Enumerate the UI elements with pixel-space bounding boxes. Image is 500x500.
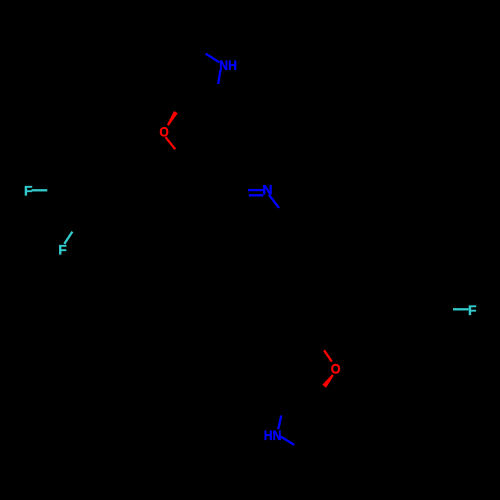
svg-text:O: O — [331, 361, 341, 377]
wire: blue half-bond C5-N1 of bottom pyrrolidine — [278, 416, 281, 430]
svg-text:NH: NH — [219, 57, 237, 73]
wire: blue half-bond N1-C5 of top pyrrolidine — [218, 70, 220, 84]
wire: cyan half-bond F-aryl (upper-left) — [32, 189, 48, 191]
wire: blue half-bond C2-N1 of top pyrrolidine — [206, 54, 220, 63]
wire: cyan half-bond F-aryl (right) — [453, 308, 469, 310]
svg-text:F: F — [58, 242, 67, 258]
svg-text:HN: HN — [264, 427, 282, 443]
svg-text:F: F — [468, 302, 477, 318]
wedge bond O to C3 of top pyrrolidine — [167, 111, 178, 126]
wire: blue half-bond N-C2 of quinoline — [269, 195, 279, 208]
wire: blue half-bond N1-C2 of bottom pyrrolidine — [281, 437, 294, 445]
wire: red half-bond O-aryl (bottom) — [324, 350, 332, 361]
wire: red half-bond O-aryl (top) — [166, 137, 176, 149]
svg-text:O: O — [159, 124, 168, 140]
wire: blue half of C=N double bond, inner line — [249, 194, 263, 196]
wire: cyan half-bond F-aryl (lower-left) — [64, 232, 72, 244]
wedge bond O to C3 of bottom pyrrolidine — [322, 374, 334, 388]
svg-text:N: N — [262, 182, 272, 198]
wire: blue half of C=N double bond, outer line — [248, 189, 263, 191]
